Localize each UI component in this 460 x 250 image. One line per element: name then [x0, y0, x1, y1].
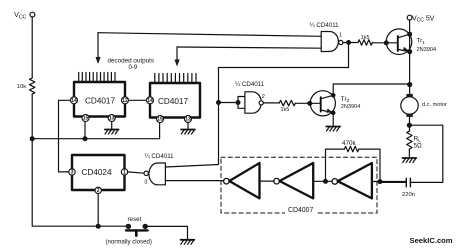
svg-text:(normally closed): (normally closed): [106, 239, 152, 246]
svg-text:¼ CD4011: ¼ CD4011: [235, 81, 265, 88]
ground under RL: [403, 157, 417, 159]
node Tr1 base dot: [384, 41, 388, 45]
node junction emitter motor Tr2: [408, 83, 412, 87]
svg-text:2N3904: 2N3904: [341, 104, 361, 110]
svg-text:0-9: 0-9: [129, 65, 138, 71]
wire Tr2 emitter to ground: [332, 113, 334, 126]
wire Vcc to 10k: [31, 17, 33, 78]
node junction motor RL sense: [407, 123, 411, 127]
node junction gate1 out: [347, 41, 351, 45]
wire inv1 to inv2: [260, 180, 274, 182]
wire chip1 pin13 to ground: [111, 121, 113, 128]
IC U2 CD4017 second: [150, 83, 200, 118]
svg-text:14: 14: [71, 98, 77, 104]
resistor 1k5 top: [358, 40, 372, 45]
svg-text:3: 3: [144, 180, 147, 186]
node junction pin2 rail: [96, 224, 100, 228]
wire decoded output 2: [177, 47, 321, 48]
pin 1 CD4024: [121, 169, 127, 175]
resistor 10k: [30, 78, 35, 94]
resistor RL 5ohm: [407, 131, 412, 149]
node Tr2 base dot: [308, 102, 312, 106]
svg-text:13: 13: [109, 116, 115, 122]
node junction pin15 chip1: [83, 137, 87, 141]
wire RL to ground: [408, 149, 410, 157]
svg-text:10k: 10k: [17, 84, 26, 90]
svg-text:decoded outputs: decoded outputs: [108, 58, 155, 65]
wire feedback loop 470k: [326, 149, 381, 182]
wire chip2 pin13 to ground: [187, 122, 189, 128]
switch reset normally closed: [126, 224, 130, 228]
node Tr2 collector dot: [332, 94, 335, 97]
pin 13 chip2: [185, 116, 192, 123]
node gate2 tie dot: [236, 101, 240, 105]
wire gate3 bottom input to oscillator: [165, 180, 223, 182]
wire reset bus pin15: [32, 123, 159, 139]
wire gate1 output: [343, 42, 358, 44]
motor M d.c. motor: [401, 97, 418, 114]
svg-text:CD4007: CD4007: [288, 207, 313, 214]
wire decoded output 1: [98, 33, 321, 37]
svg-text:CD4024: CD4024: [82, 168, 112, 177]
svg-text:¼ CD4011: ¼ CD4011: [145, 153, 175, 160]
svg-text:12: 12: [122, 98, 128, 104]
svg-text:SeekIC.com: SeekIC.com: [410, 236, 453, 245]
pin 15 chip1: [82, 115, 89, 122]
svg-text:2: 2: [97, 188, 100, 194]
arrow decoded output 2: [176, 47, 178, 61]
node junction gate2 input: [217, 101, 221, 105]
node Vcc terminal left: [30, 12, 35, 17]
svg-text:13: 13: [185, 117, 191, 123]
wire Vcc rail right: [409, 20, 411, 94]
op-amp gate U3b NAND 1/4 CD4011 mid: [245, 92, 261, 113]
node Vcc 5V terminal: [407, 15, 412, 20]
svg-text:2: 2: [262, 94, 265, 100]
wire inv3 to feedback node: [372, 181, 406, 183]
transistor Q2 Tr2 2N3904: [310, 91, 335, 116]
pins chip1 top: [79, 73, 115, 82]
svg-text:CD4017: CD4017: [158, 97, 188, 106]
node junction feedback left: [324, 180, 328, 184]
wire chip1 pin14 to CD4024 pin3: [59, 100, 71, 172]
svg-text:¼ CD4011: ¼ CD4011: [310, 22, 340, 29]
node junction Tr1 collector: [408, 32, 412, 36]
pin 14 chip2: [147, 97, 154, 104]
pin 2 CD4024: [95, 187, 101, 193]
wire Tr2 collector to motor node: [333, 84, 410, 95]
wire gate2 input tie: [219, 97, 245, 109]
capacitor 220n: [406, 178, 410, 187]
wire 1k5 to Tr2 base: [295, 102, 320, 104]
svg-text:220n: 220n: [402, 192, 415, 198]
svg-text:3: 3: [71, 170, 74, 176]
node junction Tr1 emitter: [408, 50, 412, 54]
dashed box CD4007: [221, 157, 377, 213]
svg-text:1k5: 1k5: [281, 107, 290, 113]
svg-text:14: 14: [147, 98, 153, 104]
op-amp gate U3a NAND 1/4 CD4011 top: [321, 32, 338, 52]
transistor Q1 Tr1 2N3904: [386, 29, 412, 55]
inverter C CD4007: [332, 179, 338, 185]
wire gate1 out to gate2/gate3 inputs: [165, 43, 348, 168]
wire gate2 output: [263, 102, 279, 104]
node junction 10k-reset bus: [30, 137, 34, 141]
svg-text:5Ω: 5Ω: [414, 142, 422, 149]
wire capacitor to oscillator: [380, 181, 406, 184]
svg-text:2N3904: 2N3904: [417, 47, 437, 53]
svg-text:CD4017: CD4017: [85, 96, 115, 105]
svg-text:d.c. motor: d.c. motor: [422, 102, 447, 108]
resistor 1k5 bottom: [279, 100, 295, 105]
pin 3 CD4024: [69, 169, 75, 175]
pin 12 chip1: [122, 97, 129, 104]
op-amp gate U3c NAND 1/4 CD4011 mirrored: [149, 163, 165, 185]
label CD4007: [285, 205, 317, 214]
pin 14 chip1: [71, 97, 78, 104]
wire reset to ground: [145, 226, 187, 239]
svg-text:470k: 470k: [342, 140, 357, 147]
wire CD4024 pin1 to gate3: [128, 172, 145, 173]
ground under chip1 pin13: [105, 129, 119, 131]
wire chip1 pin12 to chip2 pin14: [128, 99, 146, 101]
IC U4 CD4024: [72, 155, 125, 190]
node junction feedback right: [378, 180, 382, 184]
pin 13 chip1: [108, 115, 115, 122]
svg-text:15: 15: [83, 116, 89, 122]
ground Tr2 emitter: [326, 126, 340, 128]
ground reset: [181, 239, 195, 241]
arrow decoded output 1: [97, 33, 99, 58]
svg-text:reset: reset: [128, 216, 142, 223]
ground under chip2 pin13: [181, 129, 195, 131]
svg-text:1: 1: [339, 32, 342, 38]
svg-text:1: 1: [123, 170, 126, 176]
inverter B CD4007: [274, 178, 280, 184]
wire inv2 to inv3: [313, 180, 332, 182]
wire motor to RL: [409, 117, 411, 131]
svg-text:1k5: 1k5: [361, 35, 370, 41]
wire CD4024 pin2 to reset rail: [97, 193, 99, 226]
wire sense line to capacitor: [409, 125, 442, 182]
wire chip1 pin15 down: [84, 121, 86, 138]
resistor 470k: [344, 146, 358, 151]
svg-text:15: 15: [157, 117, 163, 123]
pin 15 chip2: [157, 116, 164, 123]
wire 10k to reset rail: [32, 94, 126, 226]
IC U1 CD4017 first: [74, 82, 125, 117]
pins chip2 top: [155, 74, 196, 83]
wire 1k5 to Tr1 base: [372, 42, 397, 44]
inverter A CD4007: [224, 178, 230, 184]
node Tr2 emitter dot: [332, 111, 335, 114]
